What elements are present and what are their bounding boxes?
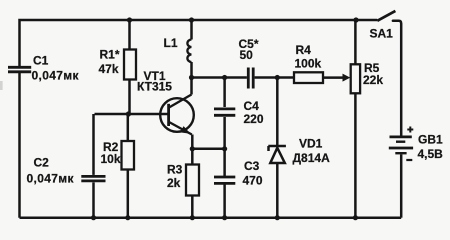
wire emitter vertical	[191, 135, 194, 165]
wire collector row	[192, 76, 247, 79]
wire R5 top	[354, 20, 357, 64]
capacitor C3	[214, 177, 235, 183]
svg-text:0,047мк: 0,047мк	[27, 171, 75, 185]
svg-text:470: 470	[243, 174, 263, 188]
svg-text:R3: R3	[167, 163, 183, 177]
wire C3 bottom	[223, 185, 226, 218]
resistor R2	[122, 141, 135, 170]
junction top rail L1	[189, 17, 194, 22]
svg-text:22k: 22k	[363, 73, 383, 87]
switch SA1 lever	[377, 11, 395, 21]
svg-text:GB1: GB1	[418, 133, 443, 147]
resistor R1	[124, 50, 136, 80]
wire battery branch	[393, 21, 401, 136]
wire C4 column mid	[223, 117, 226, 176]
wire L1 top	[190, 20, 193, 40]
svg-text:R4: R4	[296, 43, 312, 57]
svg-text:4,5В: 4,5В	[418, 147, 444, 161]
junction bottom rail R2	[125, 215, 130, 220]
capacitor C4	[214, 109, 235, 115]
junction C4 C3 node	[222, 146, 227, 151]
wire R2 top	[127, 114, 130, 141]
svg-text:47k: 47k	[99, 62, 119, 76]
wire R4 to arrow	[323, 76, 345, 79]
svg-text:L1: L1	[164, 36, 178, 50]
junction bottom rail VD1	[275, 215, 280, 220]
battery plus sign	[407, 127, 413, 133]
svg-text:VD1: VD1	[299, 137, 323, 151]
svg-text:C3: C3	[244, 159, 260, 173]
junction base node	[126, 111, 131, 116]
wire R1 top	[128, 20, 131, 50]
junction bottom rail R5	[353, 215, 358, 220]
wire battery to bottom rail	[400, 155, 403, 218]
wire bottom rail	[20, 216, 402, 219]
wire VD1 bottom	[276, 163, 279, 218]
junction bottom rail C3	[222, 215, 227, 220]
potentiometer R5	[351, 64, 360, 93]
emitter arrowhead	[180, 126, 190, 134]
resistor R4	[294, 72, 323, 83]
svg-text:0,047мк: 0,047мк	[32, 69, 80, 83]
capacitor C5	[248, 68, 253, 89]
junction collector row VD1	[275, 75, 280, 80]
wire C4 column top	[223, 78, 226, 108]
diode VD1 zener	[268, 146, 286, 163]
svg-text:C2: C2	[34, 155, 50, 169]
battery minus sign	[406, 159, 412, 161]
inductor L1	[187, 40, 191, 63]
svg-text:50: 50	[240, 48, 254, 62]
svg-text:Д814А: Д814А	[293, 151, 331, 165]
svg-text:10k: 10k	[101, 152, 121, 166]
svg-text:SA1: SA1	[370, 27, 394, 41]
junction bottom rail R3	[190, 215, 195, 220]
wire R5 bottom	[354, 93, 357, 217]
junction emitter node	[190, 146, 195, 151]
svg-text:КТ315: КТ315	[137, 79, 172, 93]
wire collector vertical	[190, 78, 193, 95]
wiper arrowhead to R5	[343, 74, 351, 82]
junction collector row C4	[222, 75, 227, 80]
capacitor C1	[8, 67, 31, 72]
wire VD1 top	[276, 78, 279, 146]
wire top rail	[20, 20, 378, 66]
wire base node	[95, 113, 168, 116]
svg-text:C1: C1	[33, 54, 49, 68]
wire R1 bottom to base	[128, 80, 131, 115]
junction bottom rail C2	[91, 215, 96, 220]
wire C2 branch lower	[92, 182, 95, 217]
svg-text:220: 220	[244, 112, 264, 126]
wire emitter to C4C3 node	[192, 148, 224, 151]
svg-text:2k: 2k	[167, 176, 181, 190]
junction top rail R1	[127, 17, 132, 22]
scan artifact left edge	[0, 81, 3, 90]
battery GB1	[389, 137, 413, 153]
capacitor C2	[81, 176, 105, 181]
resistor R3	[186, 165, 199, 196]
wire R3 bottom	[191, 196, 194, 218]
wire L1 bottom to collector node	[190, 62, 193, 78]
junction top rail R5	[353, 17, 358, 22]
wire C2 branch upper	[92, 114, 95, 175]
wire R2 bottom	[127, 170, 130, 218]
transistor VT1	[160, 95, 194, 135]
junction collector node	[189, 75, 194, 80]
svg-text:C4: C4	[244, 99, 260, 113]
svg-text:100k: 100k	[295, 56, 322, 70]
svg-text:R1*: R1*	[100, 47, 120, 61]
wire C5 to R4	[255, 76, 294, 79]
wire left rail lower	[18, 73, 21, 218]
